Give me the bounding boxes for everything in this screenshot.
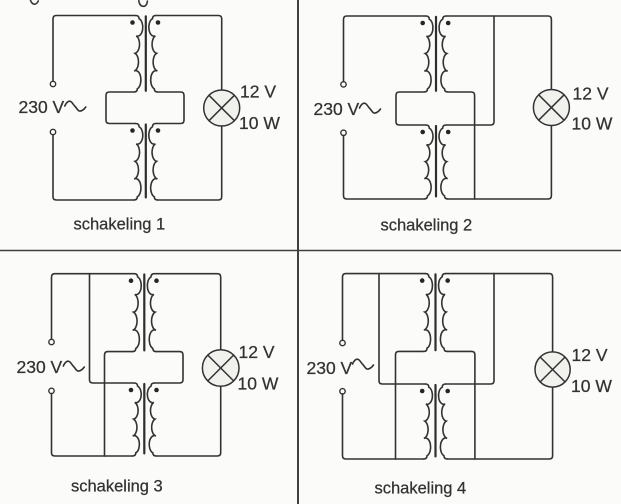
transformer T2b core: [435, 126, 437, 196]
wire: circuit 4 tap from top bus down then right to T4b primary top edge: [379, 274, 425, 384]
wire: circuit 2 left link bracket T2a primary bottom to T2b primary top: [396, 92, 426, 125]
polarity dot T2a secondary: [446, 21, 451, 26]
divider: vertical rule between left and right circuits: [297, 0, 299, 504]
stray mark: cropped g descender above circuit 1: [139, 1, 148, 7]
polarity dot T4b secondary: [445, 389, 450, 394]
wire: circuit 2 top bus left segment, source upper lead to T2a primary top: [344, 16, 426, 82]
lamp L4 12V 10W: [535, 352, 570, 387]
transformer T4a primary winding: [424, 274, 433, 352]
svg-text:12 V: 12 V: [573, 84, 609, 104]
AC tilde symbol (circuit 3): [63, 361, 84, 371]
transformer T2a primary winding: [424, 16, 433, 92]
wire: circuit 4 T4b secondary top edge across right, tap up to top bus: [446, 274, 494, 384]
transformer T4b secondary winding: [439, 384, 448, 459]
svg-text:230 V: 230 V: [17, 357, 63, 377]
polarity dot T3a primary: [129, 278, 134, 283]
svg-text:12 V: 12 V: [240, 82, 276, 102]
transformer T1a core: [145, 16, 147, 91]
svg-text:12 V: 12 V: [239, 342, 275, 362]
polarity dot T2b primary: [420, 130, 425, 135]
wire: circuit 1 right link bracket T1a secondary bottom to T1b secondary top: [156, 92, 184, 124]
transformer T1a secondary winding: [149, 16, 158, 93]
polarity dot T4b primary: [420, 389, 425, 394]
AC tilde symbol (circuit 2): [360, 103, 381, 113]
wire: circuit 2 bottom bus right segment, T2b secondary bottom to lamp: [448, 126, 552, 200]
wire: circuit 3 right link bracket T3a secondary bottom to T3b secondary top: [154, 352, 183, 383]
transformer T3b core: [143, 384, 145, 453]
terminal: circuit 2 source upper: [341, 82, 346, 87]
wire: circuit 3 tap from top bus down then right to T3b primary top edge: [90, 274, 135, 383]
transformer T3a secondary winding: [147, 274, 156, 352]
transformer T3a core: [143, 275, 145, 351]
polarity dot T1b secondary: [156, 128, 161, 133]
wire: circuit 1 left link bracket T1a primary bottom to T1b primary top: [106, 92, 136, 124]
svg-text:schakeling 4: schakeling 4: [375, 480, 467, 498]
svg-text:230 V: 230 V: [19, 97, 65, 117]
AC tilde symbol (circuit 4): [353, 359, 374, 369]
transformer T1b primary winding: [134, 124, 143, 201]
polarity dot T1b primary: [130, 128, 135, 133]
lamp L1 12V 10W: [204, 90, 240, 126]
wire: circuit 4 bottom bus left segment, source lower lead to T4b primary bottom: [343, 394, 424, 459]
transformer T4a core: [434, 274, 436, 350]
terminal: circuit 1 source upper: [50, 81, 55, 86]
wire: circuit 4 T4a secondary bottom edge, corner down to bottom bus: [447, 351, 475, 459]
wire: circuit 1 top bus left segment, source upper lead to T1a primary top: [53, 16, 136, 82]
svg-text:10 W: 10 W: [239, 113, 280, 133]
wire: circuit 4 bottom bus right segment, T4b secondary bottom to lamp: [447, 387, 552, 459]
terminal: circuit 4 source lower: [340, 389, 345, 394]
terminal: circuit 3 source lower: [49, 388, 54, 393]
lamp L3 12V 10W: [202, 350, 239, 387]
transformer T2a secondary winding: [439, 16, 448, 92]
stray mark: cropped text descender top-left: [31, 1, 39, 5]
wire: circuit 4 top bus left segment, source upper lead to T4a primary top: [343, 274, 426, 341]
polarity dot T3a secondary: [154, 278, 159, 283]
terminal: circuit 3 source upper: [49, 339, 54, 344]
wire: circuit 2 T2b secondary top edge across right, tap up to top bus: [446, 16, 494, 125]
transformer T4a secondary winding: [439, 274, 448, 352]
polarity dot T1a primary: [130, 20, 135, 25]
transformer T4b primary winding: [424, 384, 433, 459]
svg-text:230 V: 230 V: [307, 358, 353, 378]
transformer T3b secondary winding: [147, 383, 156, 456]
wire: circuit 3 T3a primary bottom edge, corner down to bottom bus: [105, 352, 133, 456]
wire: circuit 4 top bus right segment, T4a secondary top to lamp: [446, 274, 553, 352]
polarity dot T4a secondary: [445, 278, 450, 283]
wire: circuit 3 top bus right segment, T3a secondary top to lamp: [154, 274, 220, 350]
svg-text:schakeling 3: schakeling 3: [71, 478, 163, 496]
wire: circuit 2 bottom bus left segment, source lower lead to T2b primary bottom: [344, 136, 425, 200]
polarity dot T1a secondary: [156, 20, 161, 25]
svg-text:schakeling 1: schakeling 1: [74, 215, 166, 233]
transformer T2b primary winding: [424, 125, 433, 199]
wire: circuit 4 T4a primary bottom edge, corner down to bottom bus: [396, 351, 424, 459]
svg-text:schakeling 2: schakeling 2: [381, 217, 473, 235]
terminal: circuit 1 source lower: [50, 129, 55, 134]
transformer T4b core: [434, 385, 436, 456]
svg-text:10 W: 10 W: [571, 376, 612, 396]
divider: horizontal rule between top and bottom circuits: [0, 250, 621, 252]
transformer T2a core: [435, 17, 437, 91]
terminal: circuit 4 source upper: [340, 340, 345, 345]
wire: circuit 1 bottom bus left segment, source lower lead to T1b primary bottom: [53, 135, 134, 200]
polarity dot T2a primary: [420, 21, 425, 26]
polarity dot T3b primary: [129, 388, 134, 393]
polarity dot T2b secondary: [446, 130, 451, 135]
wire: circuit 3 bottom bus right segment, T3b secondary bottom to lamp: [156, 386, 221, 456]
svg-text:10 W: 10 W: [238, 374, 279, 394]
polarity dot T4a primary: [420, 278, 425, 283]
transformer T3a primary winding: [133, 274, 142, 352]
transformer T2b secondary winding: [439, 125, 448, 199]
wire: circuit 2 top bus right segment, T2a secondary top to lamp: [446, 16, 551, 90]
svg-text:12 V: 12 V: [572, 345, 608, 365]
transformer T1a primary winding: [134, 16, 143, 93]
wire: circuit 1 top bus right segment, T1a secondary top to lamp: [156, 16, 222, 91]
wire: circuit 3 bottom bus left segment, source lower lead to T3b primary bottom: [52, 394, 133, 456]
polarity dot T3b secondary: [154, 388, 159, 393]
AC tilde symbol (circuit 1): [65, 101, 86, 111]
transformer T1b core: [145, 125, 147, 198]
transformer T1b secondary winding: [149, 124, 158, 201]
wire: circuit 2 T2a secondary bottom edge, corner down to bottom bus: [448, 92, 475, 199]
transformer T3b primary winding: [133, 383, 142, 456]
wire: circuit 3 top bus left segment, source upper lead to T3a primary top: [52, 274, 135, 340]
svg-text:230 V: 230 V: [314, 99, 360, 119]
lamp L2 12V 10W: [533, 90, 569, 126]
svg-text:10 W: 10 W: [572, 114, 613, 134]
terminal: circuit 2 source lower: [341, 130, 346, 135]
wire: circuit 1 bottom bus right segment, T1b secondary bottom to lamp: [158, 126, 222, 200]
